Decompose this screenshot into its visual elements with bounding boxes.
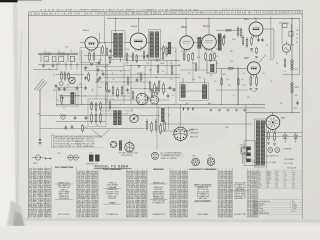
svg-text:L2: L2 [63, 108, 65, 110]
svg-text:B+: B+ [92, 89, 94, 91]
capacitor C11 [74, 116, 77, 120]
rectifier diode D2 [294, 132, 298, 143]
extra res Rm6 [195, 62, 197, 72]
tuning gang VC1 [69, 77, 76, 84]
svg-text:VC 3.5 OHM: VC 3.5 OHM [284, 163, 293, 165]
conv labels [53, 67, 106, 102]
svg-text:V4: V4 [259, 178, 261, 180]
earth cluster c [226, 110, 229, 112]
extra res Rn5 [151, 88, 153, 98]
earth cluster e [243, 110, 246, 112]
resistor R26 [117, 87, 119, 98]
svg-text:R1 47K NPO 51876: R1 47K NPO 51876 [127, 216, 147, 218]
svg-text:6V4: 6V4 [208, 155, 211, 157]
wire mesh h8 [216, 89, 248, 91]
box resistor Ru3 [100, 101, 102, 111]
wire mesh v6 [198, 48, 200, 70]
svg-text:6BE6: 6BE6 [131, 26, 138, 28]
V1 screen resistor R5 [102, 45, 104, 55]
aux socket circle [110, 141, 117, 148]
filter choke upper [291, 60, 294, 70]
svg-text:KNOB SET: KNOB SET [108, 198, 116, 200]
svg-text:1.4: 1.4 [276, 187, 278, 189]
svg-text:220: 220 [126, 63, 129, 65]
extra wire ha [124, 55, 148, 57]
terminal box a [283, 24, 288, 28]
svg-text:C30: C30 [230, 61, 233, 63]
svg-text:65: 65 [276, 178, 278, 180]
svg-text:25: 25 [266, 45, 268, 47]
svg-text:V5: V5 [259, 180, 261, 182]
svg-text:8: 8 [246, 57, 247, 59]
box resistor Rb [95, 112, 97, 124]
lower wire row2 [56, 120, 106, 122]
svg-text:6CQ8: 6CQ8 [267, 178, 271, 180]
svg-text:6BL8: 6BL8 [267, 171, 271, 173]
rod coil box c [59, 56, 64, 61]
V5 cathode ground [250, 49, 253, 51]
IF transformer T1 shield (dashed) [112, 31, 125, 60]
V8 cathode resistor R38 [268, 130, 270, 141]
AF cluster resistor R35 [155, 119, 157, 132]
svg-text:R9: R9 [131, 57, 133, 59]
wire mesh h1 [150, 47, 176, 49]
rod drop d [76, 62, 78, 70]
detector triode V4 6CQ8 [202, 35, 217, 52]
V6 grounds [249, 89, 252, 91]
volume control socket [125, 143, 134, 152]
oscillator coil core [74, 92, 76, 104]
secondary bus wire [100, 107, 265, 109]
small pot circle P2 [130, 114, 138, 122]
rail resistor [284, 58, 286, 68]
right resistor chart [258, 168, 302, 189]
svg-text:47PF: 47PF [84, 127, 88, 129]
output pentode V5 6M5 [249, 22, 263, 38]
extra res Rm1 [127, 76, 129, 86]
V3 top feed [185, 18, 187, 36]
svg-text:.01: .01 [270, 81, 272, 83]
wire mesh v1 [96, 62, 98, 96]
V1 plate riser b [99, 33, 101, 44]
svg-text:IFT3: IFT3 [208, 103, 211, 105]
svg-text:68: 68 [243, 73, 245, 75]
V8 bus junction [272, 112, 273, 113]
switch cap Ca [64, 125, 67, 129]
V5 resistor R20 [246, 37, 248, 48]
svg-text:R12: R12 [170, 63, 173, 65]
volume socket stem [128, 140, 130, 143]
svg-text:500: 500 [96, 125, 99, 127]
switch resistor Rs [82, 124, 84, 133]
table group description B [98, 168, 126, 217]
conv cap Cc1 [58, 87, 61, 91]
left V5 vert a [237, 26, 239, 37]
svg-text:FIXED CONDENSERS: FIXED CONDENSERS [103, 169, 122, 171]
HT rail wire [291, 18, 293, 113]
svg-text:16: 16 [284, 71, 286, 73]
V4 top feed [208, 18, 210, 34]
power bus right [246, 112, 300, 114]
svg-text:MODEL FZ 688A: MODEL FZ 688A [95, 164, 129, 168]
V5 bypass cap C6 [257, 38, 260, 42]
svg-text:6BL8: 6BL8 [267, 176, 271, 178]
svg-text:1.6: 1.6 [285, 176, 287, 178]
earth arrow a [183, 108, 185, 112]
svg-text:SPEAKER 5 IN: SPEAKER 5 IN [153, 213, 166, 216]
V5 top lead [255, 18, 257, 22]
extra res Rn6 [156, 86, 158, 96]
V2 output wire [147, 42, 150, 44]
svg-text:TRIMMER SET: TRIMMER SET [58, 196, 69, 198]
terminal lug c [247, 159, 251, 163]
V1 plate wire [98, 42, 114, 44]
extra cap Cn2 [98, 61, 101, 65]
L5 top lead [182, 78, 184, 84]
svg-text:240V 50c A.C.: 240V 50c A.C. [279, 22, 290, 25]
vert comp left b [168, 106, 170, 130]
V3 bypass resistor R14 [192, 52, 194, 61]
V1 bypass resistor R4 [93, 52, 95, 61]
filter choke lower [291, 83, 294, 93]
conv resistor Rc1 [68, 72, 70, 80]
socket view small V3b [150, 96, 158, 104]
detector coil L6 (dark winding) [202, 84, 206, 98]
V4 plate load coil L4 [218, 34, 221, 51]
coupling wire down [273, 29, 275, 58]
coil box dashed [179, 83, 208, 101]
title strip text [30, 10, 300, 15]
lower wire row4 [160, 130, 190, 132]
svg-text:6BL8: 6BL8 [83, 30, 89, 32]
svg-text:6M5: 6M5 [244, 19, 249, 21]
svg-text:250: 250 [158, 81, 161, 83]
aux coil small [119, 141, 121, 151]
IF transformer T2 shield (dashed) [148, 30, 161, 60]
border frame right [301, 10, 303, 218]
svg-text:35: 35 [293, 180, 295, 182]
bottom-left shadow wedge [7, 200, 25, 226]
extra res Rn2 [143, 50, 145, 60]
earth lead arrow [39, 117, 41, 139]
svg-text:2.1: 2.1 [293, 171, 295, 173]
svg-text:330: 330 [247, 97, 250, 99]
lower wire row3 [160, 123, 252, 125]
wire mesh h6 [60, 95, 130, 97]
mains drop b [290, 24, 292, 44]
svg-text:IFT2: IFT2 [186, 103, 189, 105]
svg-text:OSC COIL B/C: OSC COIL B/C [58, 214, 71, 216]
antenna symbol [34, 79, 47, 117]
svg-text:0.1: 0.1 [293, 182, 295, 184]
extra wire vd [211, 50, 213, 61]
dial cord diagonal b [101, 130, 110, 138]
V2 stage ground [137, 66, 140, 68]
right strip cap Cs1 [84, 66, 87, 70]
V1 shield box [80, 48, 101, 63]
table group refs/values B [77, 168, 99, 218]
svg-text:SWITCH WAVE: SWITCH WAVE [197, 213, 209, 216]
HT top bus wire [107, 17, 300, 19]
top-left black bar [0, 0, 18, 2]
wire mesh h7 [105, 99, 170, 101]
svg-text:C15: C15 [192, 63, 195, 65]
wire mesh v3 [144, 66, 146, 104]
vert comp left a [158, 106, 160, 130]
svg-text:IF TRANS 2nd: IF TRANS 2nd [234, 186, 245, 189]
AF cluster resistor R34 [151, 121, 153, 133]
converter grid wire [56, 74, 84, 76]
svg-text:L2: L2 [57, 100, 59, 102]
border frame left [27, 12, 29, 218]
earth arrow c [192, 108, 194, 112]
svg-text:C2: C2 [58, 63, 60, 65]
svg-text:170: 170 [276, 176, 279, 178]
audio coupling coil L7 [114, 111, 117, 126]
conv cap Cc3 [76, 86, 79, 90]
fuse icon [32, 155, 45, 160]
svg-text:Sig: Sig [292, 201, 294, 203]
svg-text:0: 0 [285, 171, 286, 173]
svg-text:L5: L5 [183, 93, 185, 95]
svg-text:R21: R21 [243, 85, 246, 87]
resistor R22a [221, 77, 223, 86]
svg-text:.01: .01 [104, 43, 106, 45]
svg-text:.05: .05 [112, 79, 114, 81]
drop wire x221 [221, 68, 223, 104]
svg-text:DET: DET [230, 51, 233, 53]
T3 frame [254, 119, 266, 167]
dial lamp DL4 [275, 148, 280, 153]
V2 input wire [124, 42, 131, 44]
switch cap Cb [71, 125, 74, 129]
right strip cap Cs5 [97, 78, 100, 82]
T1 core lines [117, 34, 119, 57]
L7 secondary [118, 111, 121, 126]
drop wire x238 [237, 68, 239, 104]
V5 cathode resistor R21 [251, 36, 253, 46]
extra cap Cn3 [167, 94, 170, 98]
capacitor C9 [126, 88, 129, 92]
connector block icon [89, 152, 100, 161]
extra cap Cm3 [136, 78, 139, 82]
svg-text:.01: .01 [91, 91, 93, 93]
bottom paper edge shadow [15, 218, 320, 222]
svg-text:CH2: CH2 [295, 95, 298, 97]
link icon [45, 158, 51, 159]
extra wire hb [96, 66, 124, 68]
extra cap Cm4 [147, 96, 150, 100]
terminal strip box [244, 141, 255, 166]
agc lower wire [125, 64, 180, 66]
svg-text:.5: .5 [233, 95, 234, 97]
right strip cap Cs6 [102, 72, 105, 76]
plug socket icon A [67, 155, 80, 160]
extra res Rm2 [132, 90, 134, 100]
V4 coupling cap C5 [223, 34, 226, 38]
svg-text:1.6: 1.6 [296, 38, 298, 40]
svg-text:C9: C9 [140, 93, 142, 95]
table group description A [51, 166, 76, 217]
svg-text:6M5: 6M5 [193, 156, 196, 158]
valve socket view S2 [207, 158, 215, 166]
capacitor C12 [85, 116, 88, 120]
V1 grid resistor R6 [106, 47, 108, 56]
svg-text:R13 47K C23 100PF R15 220K: R13 47K C23 100PF R15 220K [100, 114, 129, 116]
svg-text:FS: FS [280, 103, 282, 105]
terminal lug a [247, 147, 251, 151]
T3 core line [260, 121, 262, 166]
plate wire to right [216, 29, 240, 31]
IF can feeding V6 [207, 61, 217, 74]
rectifier diode D1 [283, 132, 287, 143]
chassis ground under aerial [38, 142, 42, 144]
side vertical comp [109, 100, 111, 110]
svg-text:V3: V3 [259, 176, 261, 178]
svg-text:455KC: 455KC [160, 63, 166, 65]
svg-text:1.0: 1.0 [293, 178, 295, 180]
svg-text:27B: 27B [296, 30, 299, 32]
svg-text:4.2: 4.2 [296, 34, 298, 36]
right edge rail [299, 18, 301, 75]
svg-text:C6 .02 1/2W 55023: C6 .02 1/2W 55023 [248, 216, 258, 218]
svg-text:R15: R15 [216, 63, 219, 65]
svg-text:0.6: 0.6 [293, 187, 295, 189]
svg-text:1.2: 1.2 [267, 185, 269, 187]
svg-text:0: 0 [285, 178, 286, 180]
svg-text:.05: .05 [216, 56, 218, 58]
table group description E [231, 168, 249, 217]
dial cord diagonal a [92, 130, 101, 138]
heater wire row [264, 131, 302, 133]
resistor R31 [163, 82, 165, 95]
svg-text:6M5: 6M5 [267, 180, 270, 182]
resistor R21b [256, 47, 258, 55]
V6 input wire [217, 67, 248, 69]
dial lamp DL3 [268, 148, 273, 153]
svg-text:.02: .02 [241, 79, 243, 81]
power transformer T3 secondary winding [261, 121, 264, 166]
component value labels [46, 32, 297, 129]
wire x107 drop [106, 65, 108, 104]
wave band feed wire [38, 64, 110, 66]
svg-text:C19: C19 [226, 79, 229, 81]
svg-text:27 B 4 2 6 B 2 T 6: 27 B 4 2 6 B 2 T 6 [222, 9, 247, 11]
lower wire row2b [40, 128, 145, 130]
detector coil L5 (dark winding) [181, 84, 185, 97]
wire mesh v4 [175, 48, 177, 104]
svg-text:85: 85 [276, 173, 278, 175]
left border wire [156, 104, 158, 150]
V6 left drop wire [237, 67, 239, 105]
extra small coil [168, 42, 171, 54]
model title underline [94, 168, 131, 170]
svg-text:.25: .25 [170, 79, 172, 81]
right strip res Rs2 [106, 82, 108, 92]
screen lead extend [104, 62, 106, 104]
box resistor Ru2 [95, 102, 97, 112]
svg-text:P-P: P-P [90, 152, 93, 154]
svg-text:.1: .1 [135, 85, 136, 87]
V1 grid cap wire [80, 42, 84, 44]
paper left edge shading [13, 0, 20, 219]
svg-text:220: 220 [104, 67, 107, 69]
valve socket view S1 [192, 158, 200, 166]
svg-text:170: 170 [276, 171, 279, 173]
svg-text:4.2: 4.2 [293, 185, 295, 187]
svg-text:50: 50 [172, 95, 174, 97]
svg-text:6.8: 6.8 [162, 71, 164, 73]
svg-text:E: E [150, 69, 151, 71]
svg-text:C2 100 630V 38290: C2 100 630V 38290 [77, 216, 98, 218]
resistor R25 [112, 85, 114, 96]
L6 top lead [204, 78, 206, 84]
earth cluster a [209, 110, 212, 112]
conv cap Cc2 [63, 87, 66, 91]
earth arrow b [187, 108, 189, 112]
notes block [253, 200, 302, 215]
interstage coil L3 [198, 37, 201, 49]
svg-text:CH1: CH1 [295, 69, 298, 71]
svg-text:.05: .05 [95, 98, 97, 100]
V9 riser [180, 104, 182, 127]
rod coil box a [44, 56, 48, 61]
table group refs/values C [126, 168, 147, 218]
paper left edge line [16, 30, 22, 218]
svg-text:100: 100 [178, 65, 181, 67]
svg-text:O.P.T.: O.P.T. [240, 145, 245, 147]
earth cluster b [218, 110, 221, 112]
svg-text:R17: R17 [164, 91, 167, 93]
svg-text:6.5: 6.5 [285, 180, 287, 182]
dark electrolytic bar [162, 108, 165, 122]
IF transformer T1 primary [114, 33, 118, 58]
extra res Rn3 [162, 52, 164, 60]
svg-text:6N8: 6N8 [267, 182, 270, 184]
left V5 vert b [240, 27, 242, 38]
box resistor Ra [91, 112, 93, 124]
ground converter [61, 98, 64, 100]
capacitor C10 [169, 86, 172, 90]
mesh junction dots [81, 60, 239, 105]
extra wire va [150, 60, 152, 74]
AF shield box [88, 99, 106, 126]
svg-text:0.4: 0.4 [293, 173, 295, 175]
svg-text:0.8: 0.8 [267, 187, 269, 189]
socket view small V2b [136, 93, 148, 105]
note circled socket [152, 152, 159, 159]
svg-text:SOCKET 7 PIN: SOCKET 7 PIN [234, 214, 246, 216]
svg-text:1.9 W: 1.9 W [292, 208, 297, 210]
svg-text:C5 25 25V 37598: C5 25 25V 37598 [218, 216, 232, 218]
extra res Rm8 [223, 36, 225, 46]
power transformer T3 primary winding [256, 121, 259, 166]
wire mesh h9 [180, 69, 207, 71]
extra res Rm7 [218, 34, 220, 44]
resistor R2 [64, 71, 66, 81]
output tube V8 6M5 [266, 115, 280, 131]
svg-text:0: 0 [285, 182, 286, 184]
extra wire vb [166, 60, 168, 74]
title strip bottom rule [29, 14, 303, 16]
svg-text:RF: RF [259, 187, 261, 189]
svg-text:RATIO DET: RATIO DET [198, 197, 207, 200]
aerial terminal leads [40, 54, 42, 62]
trimmer capacitor C2 [52, 63, 55, 67]
svg-text:2 4 6 8 10 LINE COMPONENT: 2 4 6 8 10 LINE COMPONENT LAYOUT REF C C… [40, 8, 200, 11]
V2 osc resistor R8 [136, 54, 138, 63]
V4 cathode resistor R16 [205, 52, 207, 61]
